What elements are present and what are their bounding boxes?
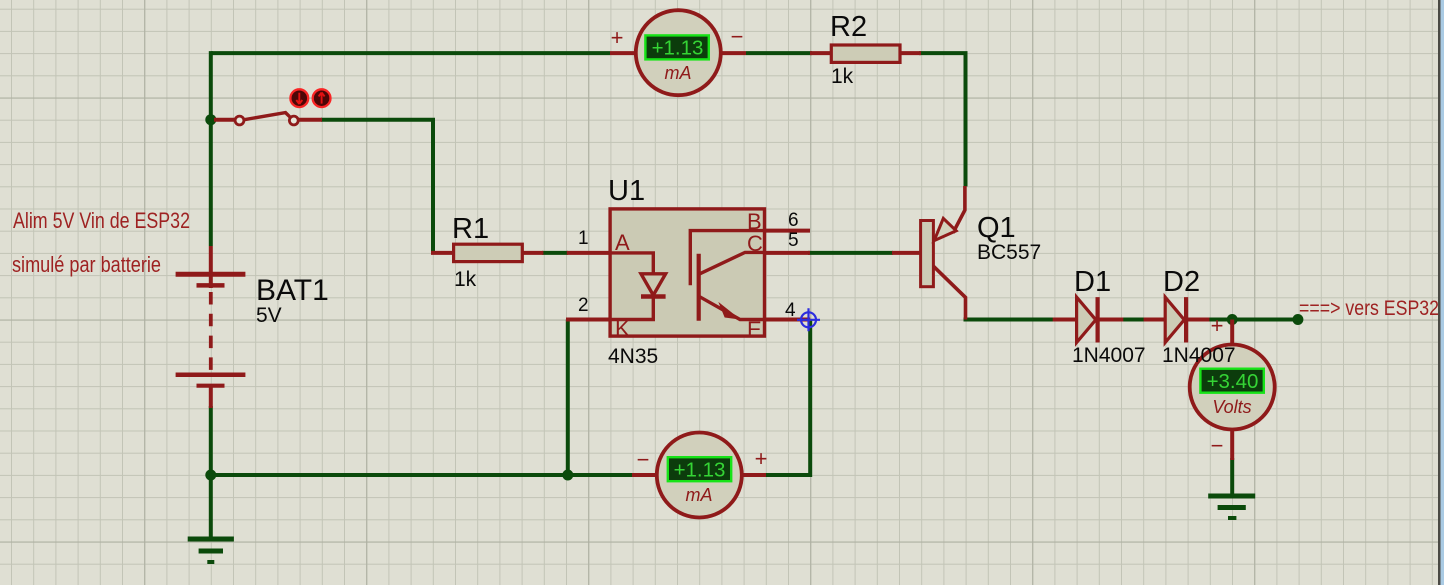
- diode D1: [1053, 297, 1124, 342]
- svg-text:U1: U1: [608, 175, 645, 207]
- emitter (top) lead: [953, 186, 965, 233]
- svg-text:R2: R2: [830, 11, 867, 43]
- internal emitter arrow: [720, 304, 740, 319]
- svg-text:1: 1: [578, 228, 589, 249]
- svg-text:5V: 5V: [256, 304, 282, 327]
- svg-text:+: +: [1211, 313, 1224, 338]
- wire: top vertical from corner down to switch junction: [209, 51, 213, 246]
- body bar: [921, 221, 934, 287]
- svg-text:+: +: [611, 25, 624, 50]
- svg-text:1N4007: 1N4007: [1162, 344, 1236, 367]
- wire: R1 to U1 pin1: [542, 251, 568, 255]
- svg-text:D1: D1: [1074, 266, 1111, 298]
- wire: U1 pin5 to Q1 base: [808, 251, 893, 255]
- wire: ammeter1 to R2: [746, 51, 812, 55]
- opto-coupler U1 4N35: [566, 209, 810, 342]
- switch actuator button down: [290, 89, 308, 107]
- pin 5 stub: [765, 251, 811, 255]
- node: output terminal vers ESP32: [1292, 314, 1303, 325]
- svg-text:2: 2: [578, 295, 589, 316]
- switch SW1 contact left: [235, 116, 244, 125]
- ammeter AM2 (bottom): [632, 433, 767, 518]
- resistor R1: [431, 244, 543, 261]
- svg-text:4: 4: [785, 300, 796, 321]
- sheet right edge border: [1438, 0, 1441, 585]
- collector (bottom) lead: [933, 266, 965, 319]
- ammeter AM1 (top): [610, 10, 746, 95]
- battery BAT1: [176, 246, 246, 408]
- node: junction bottom rail at battery: [205, 470, 216, 481]
- wire: Q1 collector to D1: [966, 318, 1055, 320]
- svg-text:+1.13: +1.13: [652, 37, 704, 60]
- wire: D1 to D2: [1122, 318, 1145, 322]
- wire: bottom rail to ammeter2: [209, 473, 633, 477]
- svg-text:4N35: 4N35: [608, 345, 658, 368]
- wire: switch to R1 corner: [321, 120, 433, 253]
- svg-text:Q1: Q1: [977, 212, 1016, 244]
- internal photo-transistor bar: [697, 254, 701, 321]
- svg-text:E: E: [747, 317, 762, 342]
- svg-text:===> vers ESP32: ===> vers ESP32: [1299, 297, 1439, 320]
- pin 1 stub: [567, 251, 610, 255]
- internal LED triangle: [641, 274, 666, 295]
- svg-text:5: 5: [788, 230, 799, 251]
- svg-text:−: −: [637, 447, 650, 472]
- transistor Q1 BC557: [892, 186, 966, 320]
- svg-text:C: C: [747, 231, 763, 256]
- node: junction at voltmeter tap: [1227, 314, 1238, 325]
- svg-text:Alim 5V Vin de ESP32: Alim 5V Vin de ESP32: [13, 208, 190, 233]
- node: junction bottom rail at U1 pin2 column: [562, 470, 573, 481]
- svg-text:Volts: Volts: [1212, 397, 1251, 417]
- probe crosshair at pin 4: [797, 308, 820, 331]
- svg-text:simulé par batterie: simulé par batterie: [12, 252, 161, 277]
- internal collector lead: [699, 252, 765, 274]
- svg-text:1N4007: 1N4007: [1072, 344, 1146, 367]
- svg-text:−: −: [1211, 433, 1224, 458]
- resistor R2: [810, 45, 921, 62]
- svg-text:1k: 1k: [831, 65, 854, 88]
- svg-text:1k: 1k: [454, 268, 477, 291]
- internal LED cathode path: [610, 297, 653, 320]
- svg-text:+3.40: +3.40: [1207, 370, 1259, 393]
- svg-text:R1: R1: [452, 213, 489, 245]
- pin 4 stub: [765, 318, 811, 322]
- internal LED cathode bar: [641, 294, 666, 298]
- node: junction at switch/battery: [205, 114, 216, 125]
- emitter arrow: [934, 218, 956, 240]
- switch SW1 pole wire: [214, 118, 236, 122]
- svg-text:+: +: [755, 446, 768, 471]
- wire: top horizontal left segment: [211, 51, 610, 55]
- pin 6 stub: [765, 229, 811, 233]
- svg-text:−: −: [731, 24, 744, 49]
- svg-text:6: 6: [788, 210, 799, 231]
- switch SW1 throw wire: [298, 118, 322, 122]
- svg-text:mA: mA: [665, 63, 692, 83]
- svg-text:A: A: [615, 230, 630, 255]
- wire: R2 to right corner down to Q1 emitter: [919, 53, 966, 186]
- switch SW1 lever: [244, 113, 291, 120]
- internal emitter lead: [699, 296, 765, 319]
- diode D2: [1144, 297, 1210, 342]
- ground: below battery: [188, 539, 234, 562]
- svg-text:mA: mA: [686, 485, 713, 505]
- internal photo-transistor base lead: [690, 231, 764, 286]
- svg-text:BC557: BC557: [977, 241, 1041, 264]
- wire: voltmeter ground wire: [1230, 458, 1234, 494]
- svg-text:+1.13: +1.13: [674, 459, 726, 482]
- body: [610, 209, 764, 336]
- switch SW1 contact right: [289, 116, 298, 125]
- voltmeter VM1: [1190, 313, 1275, 460]
- pin 2 stub: [566, 318, 610, 322]
- wire: battery bottom to ground rail: [209, 406, 213, 537]
- internal LED anode path: [610, 253, 653, 274]
- wire: U1 pin2 corner down to bottom rail: [566, 320, 570, 476]
- svg-text:K: K: [615, 316, 630, 341]
- svg-text:BAT1: BAT1: [256, 274, 329, 307]
- wire: U1 pin4 down to bottom ammeter: [766, 320, 810, 476]
- switch actuator button up: [313, 89, 331, 107]
- wire: D2 to output node: [1208, 318, 1298, 322]
- svg-text:D2: D2: [1163, 266, 1200, 298]
- ground: below voltmeter: [1208, 496, 1255, 518]
- base stub: [892, 251, 921, 255]
